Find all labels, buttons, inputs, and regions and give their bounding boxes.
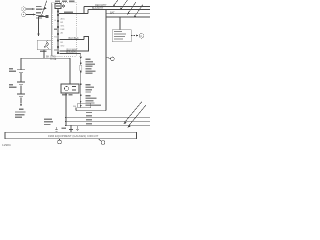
svg-text:BLK/WHT: BLK/WHT [92,7,104,10]
svg-text:ACC: ACC [61,18,66,21]
svg-text:12984: 12984 [2,143,11,147]
junction F22 [80,95,82,97]
switch internal line [57,9,59,54]
lock contact block [46,15,49,18]
ignition box inner border [50,3,52,57]
bus offpage arrow 1 [124,102,142,125]
label C2 [9,84,17,88]
label C1 [9,68,16,72]
small ground symbols above banner [55,126,79,132]
battery plates [17,94,25,97]
switch contact box [55,4,61,9]
detail circle A [139,34,144,39]
junction [80,63,82,65]
fuse F16 labels [86,84,95,93]
junction F16 [80,84,82,86]
svg-text:B1: B1 [61,42,64,44]
wire ACC jog upper [60,39,85,41]
leader to detail circle [131,35,139,37]
bus label 3 [86,123,92,124]
svg-text:A: A [140,34,142,38]
label under wire [86,112,92,113]
battery C1 connector [17,70,25,73]
bus junction 1 [65,116,67,118]
wire W4 [106,16,150,18]
connector C2 top-left [21,12,25,16]
bus label 2 [86,119,92,120]
wire [20,85,22,93]
wire from C2 with arrow [26,14,36,16]
wire key switch to battery feed [43,50,45,59]
fuse feed down arrow [80,54,82,60]
svg-text:A1: A1 [61,32,64,35]
ignition switch box (dashed) [53,3,77,57]
wire [20,73,22,82]
wire down to relay box [119,17,121,30]
bus junction 2 [65,120,67,122]
relay box [112,30,131,42]
wire down to key switch [37,17,39,37]
offpage arrow W1 [113,0,119,7]
key switch box (dashed) [37,40,51,50]
wire y13.5 from switch [60,13,89,15]
label under lamp box [62,94,73,95]
label under key switch [40,51,47,52]
relay box text [114,31,126,40]
riser to W1 [83,7,85,14]
bus offpage arrow 2 [128,105,146,128]
svg-text:W6: W6 [73,106,77,108]
label on wire [64,12,73,13]
stub up to label [75,108,77,111]
svg-text:ST2: ST2 [61,46,66,48]
fusible link tag box [78,103,91,108]
label ST1 [36,6,43,10]
bus labels left [44,119,53,126]
junction [80,71,82,73]
wire down to battery [20,58,22,69]
offpage arrow W3 [127,2,136,15]
bus line 2 [66,120,150,122]
wire W1 [84,6,150,8]
svg-text:BAT: BAT [110,11,115,14]
wire IGN feed to fuse [60,53,81,55]
switch contacts [57,11,59,54]
offpage arrow W4 [134,5,143,18]
wire lamp box to bus [65,93,67,125]
svg-text:G: G [54,20,56,22]
junction at switch [59,13,60,14]
labels IGN BAT ACC [55,1,75,3]
connector C1 top-left [21,7,25,11]
bus label 1 [86,115,92,116]
bus line 1 [66,116,150,118]
svg-text:BLK/WHT: BLK/WHT [66,51,78,54]
label BAT FEED [36,12,44,18]
svg-text:IGN: IGN [61,29,65,31]
ignition lamp box [61,84,79,93]
junction W2 [105,9,107,11]
junction low [80,101,81,102]
svg-text:BK ORG: BK ORG [46,55,56,58]
long vertical feed wire [105,10,107,111]
offpage arrow W2 [120,0,128,10]
junction [83,13,84,14]
fuse F21 element [80,65,82,70]
wire to ground [20,97,22,106]
wire W3 [106,13,150,15]
svg-text:B2: B2 [61,22,64,24]
svg-text:ST1: ST1 [61,26,66,28]
riser to W2 [87,10,89,14]
wire y58 battery to ignition box [21,57,70,59]
wire into lamp box [69,58,71,84]
jog up [60,37,89,52]
junction W4 [119,16,121,18]
fuse chain vertical upper [80,60,82,66]
under-banner ref 1 [58,139,62,144]
svg-text:BLK/BLK: BLK/BLK [69,37,79,40]
svg-text:1984 EQUIPMENT (GAUGES) CIRCUI: 1984 EQUIPMENT (GAUGES) CIRCUIT [48,134,99,138]
under-banner ref 2 [98,139,105,145]
fuse F21 labels [86,59,96,74]
lock cylinder arm [39,16,48,18]
bottom feed wire [76,110,106,112]
tap with terminal circle [106,57,114,61]
wire W2 [88,9,150,11]
fuse chain vertical lower [80,70,82,104]
bus junction 3 [65,124,67,126]
fuse chain end arrow [80,105,82,108]
fuse F22 labels [86,95,102,106]
svg-text:R1: R1 [54,37,58,39]
junction on W1 [89,6,90,7]
banner bar [5,132,137,138]
switch lever [42,1,47,16]
svg-text:18 GA: 18 GA [50,58,57,61]
bus line 3 [66,124,150,126]
battery C2 connector [17,82,25,85]
wire from C1 with arrow [26,8,35,10]
contact labels [54,18,65,51]
lever arrowhead [44,7,47,10]
ground label W2 [15,108,26,118]
